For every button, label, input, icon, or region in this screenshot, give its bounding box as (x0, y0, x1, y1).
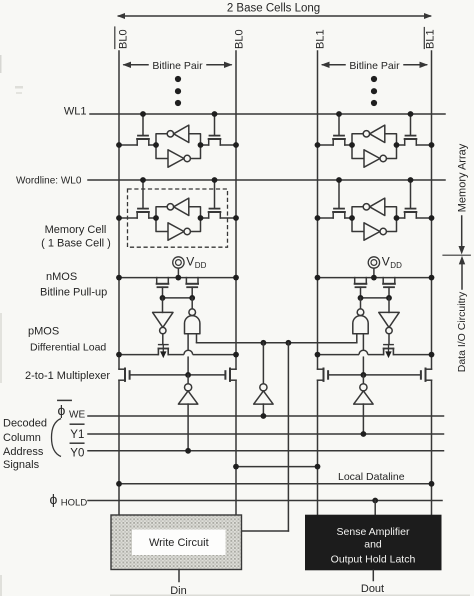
column inverter Y1 (354, 375, 373, 434)
label Y1 bar (70, 424, 84, 441)
pull-up transistor M2 (186, 278, 198, 298)
svg-text:DD: DD (195, 261, 207, 270)
svg-text:Bitline Pair: Bitline Pair (349, 60, 400, 72)
cross-coupled inverter pair cell row1 left pair (156, 125, 201, 167)
cross-coupled inverter pair cell row1 right pair (352, 125, 397, 167)
array boundary tick (443, 254, 470, 256)
label Memory Array (456, 143, 468, 212)
load NAND gate left pair (185, 298, 200, 334)
rail dots right (315, 275, 435, 281)
gate line dots (160, 295, 392, 301)
bitline BL1 wire (317, 51, 319, 515)
label Local Dataline (338, 471, 405, 483)
pull-up gate line left (163, 297, 193, 299)
local dataline true (233, 464, 320, 470)
cross-coupled inverter pair cell row2 left pair (base cell) (156, 198, 201, 240)
pull-up transistor M1 (157, 278, 169, 298)
svg-text:2 Base Cells Long: 2 Base Cells Long (227, 3, 320, 15)
svg-text:ϕ: ϕ (50, 491, 58, 507)
Y0 wire (88, 448, 444, 454)
svg-text:Write Circuit: Write Circuit (149, 537, 209, 549)
access transistor right cell row1 left pair (201, 114, 237, 145)
svg-text:WE: WE (69, 410, 85, 421)
access transistor left cell row2 right pair (318, 180, 353, 218)
svg-text:Y0: Y0 (70, 447, 84, 459)
mux gate line right (329, 372, 419, 378)
wordline WL0 wire (88, 179, 445, 181)
pull-up transistor M4 (383, 278, 395, 298)
svg-text:Decoded: Decoded (3, 417, 47, 429)
phi-WE wire (88, 413, 444, 419)
mux transistor BL1-bar (421, 369, 432, 381)
svg-text:( 1 Base Cell ): ( 1 Base Cell ) (41, 237, 111, 249)
svg-text:Dout: Dout (361, 583, 384, 595)
VDD supply symbol right (368, 255, 402, 278)
column inverter Y0 (178, 375, 197, 451)
svg-text:Signals: Signals (3, 459, 40, 471)
label BL1-bar (424, 28, 436, 50)
svg-text:and: and (364, 539, 382, 551)
svg-text:BL0: BL0 (234, 29, 246, 49)
label BL0 (234, 29, 246, 49)
svg-text:Din: Din (170, 585, 187, 596)
bitline pair arrow left (123, 60, 233, 72)
phi-HOLD wire (88, 498, 442, 515)
svg-text:BL1: BL1 (424, 29, 436, 49)
svg-text:Y1: Y1 (70, 429, 84, 441)
svg-text:Data I/O Circuitry: Data I/O Circuitry (456, 291, 468, 372)
svg-text:ϕ: ϕ (58, 402, 66, 418)
access transistor left cell row1 left pair (119, 114, 156, 145)
NAND input stubs right pair (357, 334, 364, 375)
svg-text:Column: Column (3, 432, 41, 444)
dimension arrow 2 Base Cells Long (117, 3, 432, 20)
VDD supply symbol left (173, 255, 207, 278)
label Din (170, 585, 187, 596)
rail right pair with hop (318, 350, 432, 354)
rail dots (116, 352, 434, 358)
label BL1 (315, 29, 327, 49)
load NAND gate right pair (353, 298, 368, 334)
label 2-to-1 Multiplexer (25, 370, 110, 382)
write circuit enable wire (242, 343, 289, 531)
Y1 wire (88, 431, 444, 437)
wordline WL1 wire (90, 113, 445, 115)
svg-text:HOLD: HOLD (61, 498, 88, 509)
label WL1 (64, 106, 87, 118)
svg-text:Bitline Pull-up: Bitline Pull-up (40, 287, 107, 299)
pull-up transistor M3 (355, 278, 367, 298)
svg-text:WL1: WL1 (64, 106, 87, 118)
column ellipsis dots left (175, 76, 181, 106)
label nMOS Bitline Pull-up (40, 271, 107, 299)
label phi-WE (58, 400, 86, 420)
label Wordline: WL0 (16, 176, 82, 187)
local dataline complement (116, 481, 434, 487)
svg-text:2-to-1 Multiplexer: 2-to-1 Multiplexer (25, 370, 110, 382)
VDD rail right pair (318, 277, 432, 279)
mux gate line left (131, 372, 224, 378)
data io arrow (459, 256, 465, 289)
bitline BL0 wire (235, 51, 237, 515)
cross-coupled inverter pair cell row2 right pair (352, 198, 397, 240)
VDD rail left pair (119, 277, 236, 279)
brace (52, 419, 62, 457)
node dots cell row1 left pair (116, 111, 239, 148)
svg-text:Memory Cell: Memory Cell (45, 224, 107, 236)
svg-text:Wordline: WL0: Wordline: WL0 (16, 176, 82, 187)
label 1 Base Cell (41, 237, 111, 249)
label phi-HOLD (50, 491, 88, 509)
svg-text:Bitline Pair: Bitline Pair (152, 60, 203, 72)
svg-text:DD: DD (390, 261, 402, 270)
svg-text:Address: Address (3, 446, 44, 458)
mux transistor BL0-bar (119, 369, 130, 381)
access transistor right cell row2 right pair (397, 180, 432, 218)
mux transistor BL1 (318, 369, 329, 381)
access transistor right cell row2 left pair (base cell) (201, 180, 237, 218)
svg-text:V: V (186, 255, 194, 269)
label Memory Cell (45, 224, 107, 236)
dashed outline memory cell (1 base cell) (128, 189, 228, 247)
label Data I/O Circuitry (456, 291, 468, 372)
svg-text:Local Dataline: Local Dataline (338, 471, 405, 483)
svg-text:V: V (382, 255, 390, 269)
pull-up gate line right (361, 297, 390, 299)
rail left pair with hop (119, 350, 236, 354)
svg-text:pMOS: pMOS (28, 326, 59, 338)
svg-text:Differential Load: Differential Load (30, 342, 106, 354)
load pass transistor left pair (158, 345, 168, 359)
label Y0 bar (70, 443, 84, 459)
label pMOS Differential Load (28, 326, 106, 354)
load pass transistor right pair (384, 345, 394, 359)
node dots cell row2 left pair (base cell) (116, 177, 239, 221)
bitline pair arrow right (321, 60, 428, 72)
load inverter left pair (153, 298, 173, 344)
svg-text:BL0: BL0 (117, 29, 129, 49)
svg-text:BL1: BL1 (315, 29, 327, 49)
Dout stem (372, 570, 374, 580)
column inverter WE (254, 343, 273, 416)
write-enable NAND line (197, 342, 357, 344)
Din stem (178, 570, 180, 582)
access transistor right cell row1 right pair (397, 114, 432, 145)
bitline BL0-bar wire (118, 51, 120, 515)
svg-text:Output Hold Latch: Output Hold Latch (331, 554, 416, 566)
column ellipsis dots right (371, 76, 377, 106)
rail dots left (116, 275, 239, 281)
NAND line dots (261, 340, 292, 346)
svg-text:Memory Array: Memory Array (456, 143, 468, 212)
node dots cell row2 right pair (315, 177, 435, 221)
sense amplifier block (305, 515, 442, 571)
mux transistor BL0 (225, 369, 236, 381)
bitline BL1-bar wire (431, 51, 433, 515)
svg-text:Sense Amplifier: Sense Amplifier (337, 526, 410, 538)
node dots cell row1 right pair (315, 111, 435, 148)
load inverter right pair (379, 298, 399, 344)
svg-text:nMOS: nMOS (46, 271, 77, 283)
memory array arrow (459, 216, 465, 255)
access transistor left cell row2 left pair (base cell) (119, 180, 156, 218)
NAND input stubs left pair (188, 334, 196, 375)
label BL0-bar (115, 27, 130, 49)
access transistor left cell row1 right pair (318, 114, 353, 145)
label Dout (361, 583, 384, 595)
write circuit block (111, 515, 242, 570)
label Decoded Column Address Signals (3, 417, 47, 471)
